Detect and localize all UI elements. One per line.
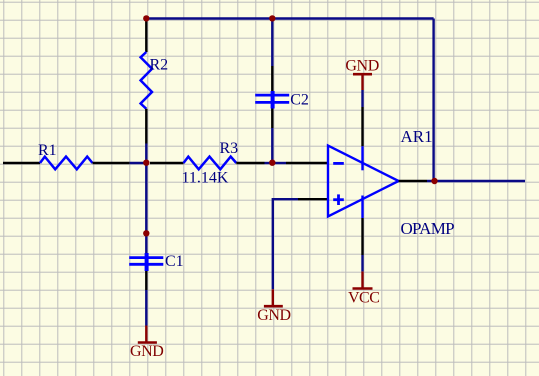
power port GND (op-amp V-) [345,57,378,90]
svg-text:R2: R2 [150,56,169,73]
junction C1 node [143,230,149,236]
svg-text:R3: R3 [220,140,239,157]
svg-text:C1: C1 [165,253,184,270]
wire output [427,180,525,182]
wire C2 bottom to node [271,128,273,163]
svg-text:GND: GND [345,57,378,74]
wire R3 to node [265,162,273,164]
pin op-amp top power [361,107,363,146]
wire op-amp plus net [273,199,298,289]
svg-text:VCC: VCC [348,289,379,306]
capacitor C2 [255,19,309,128]
capacitor C1 [129,163,183,290]
wire R2 bottom to node [145,144,147,164]
wire R1 to node [130,162,147,164]
power port VCC [348,271,379,306]
wire C1 to ground [145,290,147,326]
power port GND (plus input) [257,289,290,324]
svg-text:AR1: AR1 [401,127,433,146]
wire GND to op-amp top pin [361,90,363,107]
power port GND (C1) [130,326,163,361]
wire VCC to op-amp bottom pin [361,255,363,271]
pin op-amp minus [286,162,328,164]
junction mid-left node [143,160,149,166]
junction top C2 node [269,15,275,21]
junction output node [431,178,437,184]
resistor R1 [3,142,130,170]
svg-text:GND: GND [257,307,290,324]
op-amp U1 AR1 [328,127,454,238]
pin op-amp plus [298,198,328,200]
pin op-amp output [399,180,427,182]
junction mid C2 node [269,160,275,166]
svg-text:C2: C2 [290,92,309,109]
wire node to op-amp minus pin [272,162,286,164]
pin op-amp bottom power [361,218,363,255]
junction top-left node [143,15,149,21]
svg-text:R1: R1 [38,142,57,159]
svg-text:11.14K: 11.14K [182,169,229,186]
svg-text:OPAMP: OPAMP [401,219,455,238]
svg-text:GND: GND [130,343,163,360]
resistor R2 [141,19,169,144]
resistor R3 [150,140,265,186]
wire top horizontal [146,17,433,19]
wire right vertical [432,19,434,182]
